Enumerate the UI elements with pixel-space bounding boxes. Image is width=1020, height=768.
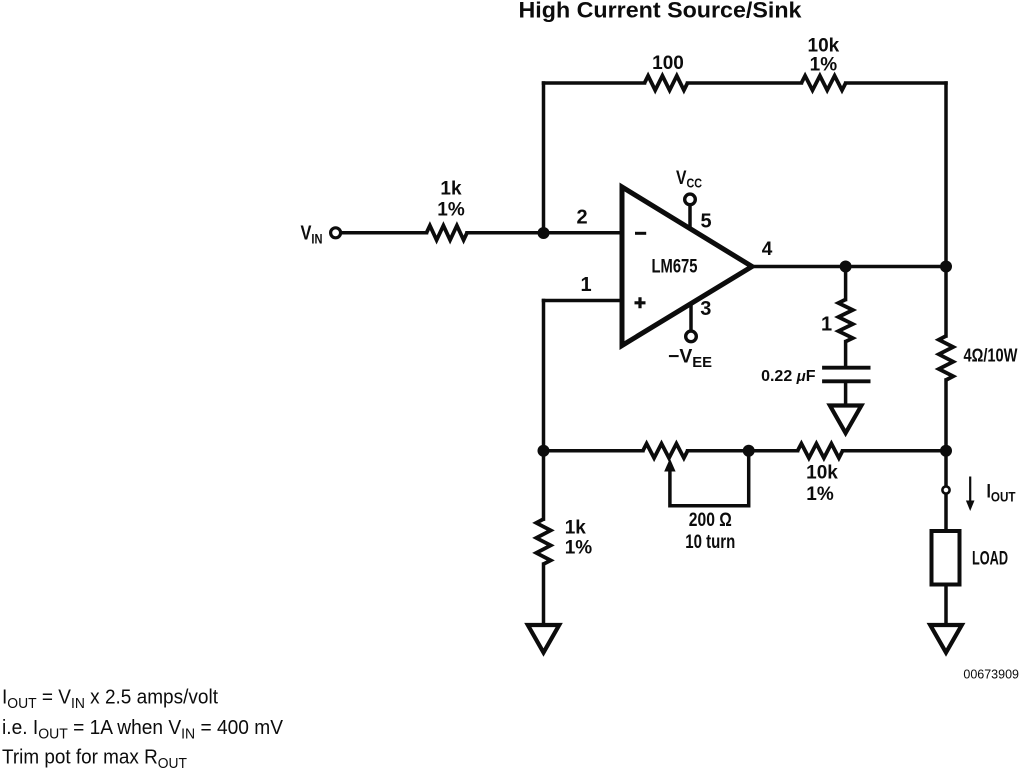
svg-text:5: 5: [700, 211, 711, 233]
svg-text:1%: 1%: [565, 538, 593, 559]
svg-text:1k: 1k: [440, 179, 462, 200]
svg-text:200 Ω: 200 Ω: [689, 510, 732, 531]
svg-text:10 turn: 10 turn: [685, 532, 735, 553]
svg-text:2: 2: [576, 207, 587, 229]
svg-text:10k: 10k: [806, 463, 838, 484]
svg-text:1%: 1%: [806, 484, 834, 505]
svg-text:1%: 1%: [810, 55, 838, 76]
svg-text:00673909: 00673909: [963, 668, 1019, 682]
svg-text:4Ω/10W: 4Ω/10W: [964, 345, 1018, 366]
svg-text:High Current Source/Sink: High Current Source/Sink: [519, 0, 803, 23]
svg-text:LM675: LM675: [652, 257, 698, 278]
svg-text:4: 4: [762, 239, 773, 260]
svg-text:1: 1: [821, 313, 832, 335]
svg-text:10k: 10k: [808, 36, 840, 57]
svg-text:1k: 1k: [565, 517, 587, 538]
svg-text:3: 3: [700, 298, 711, 320]
svg-text:LOAD: LOAD: [972, 549, 1008, 570]
svg-text:0.22 μF: 0.22 μF: [761, 368, 816, 385]
svg-text:100: 100: [652, 53, 684, 74]
svg-text:1: 1: [580, 274, 591, 296]
svg-text:1%: 1%: [437, 200, 465, 221]
